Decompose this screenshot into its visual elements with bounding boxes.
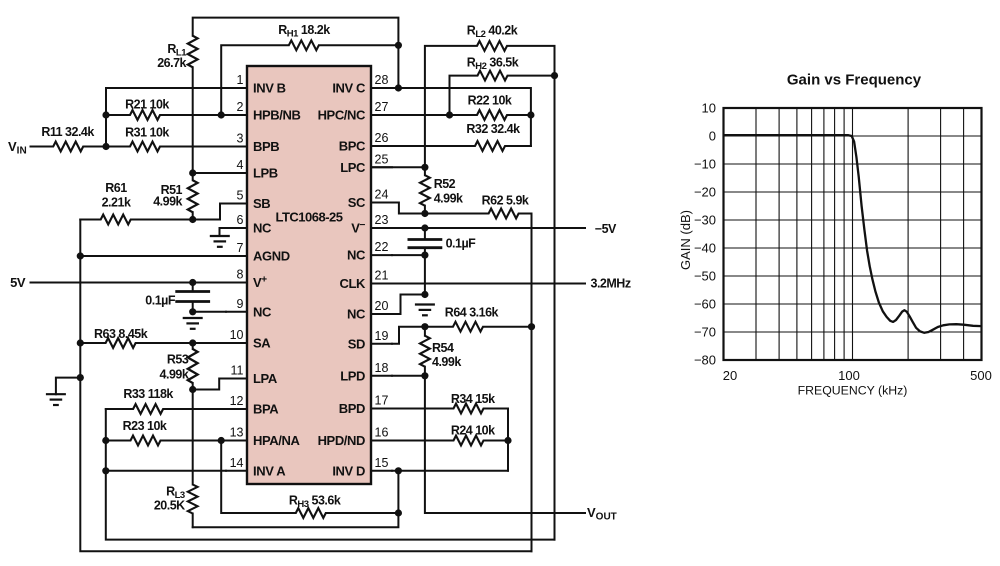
- svg-text:4.99k: 4.99k: [434, 192, 463, 206]
- svg-text:GAIN (dB): GAIN (dB): [678, 210, 693, 270]
- svg-text:SD: SD: [348, 336, 365, 351]
- svg-text:INV B: INV B: [253, 81, 286, 96]
- svg-text:−30: −30: [694, 213, 716, 228]
- svg-text:−20: −20: [694, 185, 716, 200]
- svg-text:SC: SC: [348, 195, 366, 210]
- svg-text:R63 8.45k: R63 8.45k: [94, 327, 148, 341]
- svg-text:R31 10k: R31 10k: [125, 126, 169, 140]
- svg-text:26: 26: [375, 131, 389, 145]
- svg-text:R32 32.4k: R32 32.4k: [466, 122, 520, 136]
- svg-text:NC: NC: [347, 248, 366, 263]
- svg-text:23: 23: [375, 213, 389, 227]
- svg-text:R11 32.4k: R11 32.4k: [41, 125, 94, 139]
- svg-text:R61: R61: [105, 181, 127, 195]
- svg-text:0: 0: [709, 129, 716, 144]
- svg-text:R24 10k: R24 10k: [451, 423, 495, 437]
- svg-text:CLK: CLK: [339, 276, 366, 291]
- svg-text:4.99k: 4.99k: [432, 355, 461, 369]
- svg-text:LPC: LPC: [340, 160, 366, 175]
- svg-text:27: 27: [375, 100, 389, 114]
- svg-text:−40: −40: [694, 241, 716, 256]
- svg-text:BPB: BPB: [253, 139, 279, 154]
- svg-text:LTC1068-25: LTC1068-25: [275, 210, 342, 225]
- svg-text:28: 28: [375, 73, 389, 87]
- svg-text:12: 12: [230, 394, 244, 408]
- svg-text:LPA: LPA: [253, 371, 278, 386]
- svg-text:6: 6: [237, 213, 244, 227]
- svg-text:R21 10k: R21 10k: [125, 97, 169, 111]
- svg-text:100: 100: [838, 368, 860, 383]
- svg-text:8: 8: [237, 268, 244, 282]
- svg-text:10: 10: [702, 101, 716, 116]
- svg-text:2.21k: 2.21k: [102, 196, 131, 210]
- svg-text:R22 10k: R22 10k: [468, 94, 512, 108]
- svg-text:21: 21: [375, 269, 389, 283]
- svg-text:FREQUENCY (kHz): FREQUENCY (kHz): [798, 384, 908, 398]
- svg-text:BPA: BPA: [253, 402, 279, 417]
- svg-text:18: 18: [375, 361, 389, 375]
- svg-text:25: 25: [375, 152, 389, 166]
- svg-text:16: 16: [375, 426, 389, 440]
- svg-text:−60: −60: [694, 297, 716, 312]
- svg-text:17: 17: [375, 394, 389, 408]
- svg-text:SB: SB: [253, 196, 270, 211]
- svg-text:2: 2: [237, 100, 244, 114]
- svg-text:LPB: LPB: [253, 166, 278, 181]
- svg-text:NC: NC: [347, 307, 366, 322]
- svg-text:NC: NC: [253, 304, 272, 319]
- svg-text:HPB/NB: HPB/NB: [253, 108, 300, 123]
- svg-text:500: 500: [970, 368, 992, 383]
- svg-text:INV C: INV C: [332, 81, 366, 96]
- svg-text:26.7k: 26.7k: [157, 56, 186, 70]
- svg-text:20: 20: [375, 299, 389, 313]
- svg-text:20.5K: 20.5K: [154, 499, 185, 513]
- svg-text:R34 15k: R34 15k: [451, 392, 495, 406]
- svg-text:−80: −80: [694, 353, 716, 368]
- svg-text:0.1µF: 0.1µF: [145, 294, 176, 308]
- svg-text:−50: −50: [694, 269, 716, 284]
- svg-text:HPA/NA: HPA/NA: [253, 433, 300, 448]
- svg-text:AGND: AGND: [253, 249, 290, 264]
- svg-text:4.99k: 4.99k: [160, 368, 189, 382]
- svg-text:1: 1: [237, 73, 244, 87]
- svg-text:4: 4: [237, 158, 244, 172]
- svg-text:INV A: INV A: [253, 463, 286, 478]
- svg-text:R52: R52: [434, 177, 456, 191]
- svg-text:R33 118k: R33 118k: [123, 387, 173, 401]
- svg-text:5: 5: [237, 189, 244, 203]
- svg-text:11: 11: [231, 364, 244, 378]
- svg-text:3: 3: [237, 132, 244, 146]
- svg-text:R23 10k: R23 10k: [123, 419, 167, 433]
- svg-text:20: 20: [723, 368, 737, 383]
- svg-text:HPD/ND: HPD/ND: [318, 433, 365, 448]
- svg-text:R54: R54: [432, 341, 454, 355]
- svg-text:−70: −70: [694, 325, 716, 340]
- svg-text:NC: NC: [253, 221, 272, 236]
- svg-text:14: 14: [230, 456, 244, 470]
- svg-text:24: 24: [375, 188, 389, 202]
- svg-text:BPC: BPC: [339, 139, 366, 154]
- svg-text:9: 9: [237, 297, 244, 311]
- svg-text:5V: 5V: [10, 275, 26, 290]
- svg-text:BPD: BPD: [339, 401, 365, 416]
- svg-text:7: 7: [237, 241, 244, 255]
- svg-text:Gain vs Frequency: Gain vs Frequency: [787, 72, 922, 89]
- svg-text:R64 3.16k: R64 3.16k: [445, 306, 499, 320]
- svg-text:10: 10: [230, 328, 244, 342]
- svg-text:19: 19: [375, 329, 389, 343]
- svg-text:15: 15: [375, 456, 389, 470]
- svg-text:0.1µF: 0.1µF: [446, 236, 477, 250]
- svg-text:3.2MHz: 3.2MHz: [591, 276, 631, 290]
- svg-text:LPD: LPD: [340, 368, 365, 383]
- svg-text:13: 13: [230, 426, 244, 440]
- svg-text:−5V: −5V: [595, 222, 617, 236]
- svg-text:4.99k: 4.99k: [153, 195, 182, 209]
- svg-text:R53: R53: [167, 353, 189, 367]
- svg-text:INV D: INV D: [332, 463, 365, 478]
- svg-text:SA: SA: [253, 336, 271, 351]
- svg-text:−10: −10: [694, 157, 716, 172]
- svg-text:22: 22: [375, 240, 389, 254]
- svg-text:R62 5.9k: R62 5.9k: [482, 194, 529, 208]
- svg-text:HPC/NC: HPC/NC: [318, 108, 366, 123]
